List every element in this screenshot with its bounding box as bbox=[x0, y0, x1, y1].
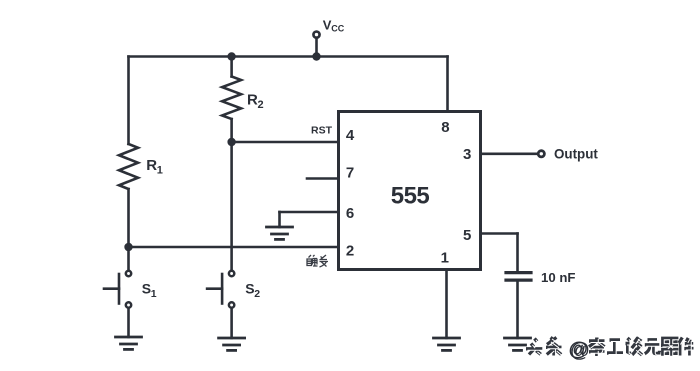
svg-text:10 nF: 10 nF bbox=[541, 270, 575, 285]
terminal Output bbox=[538, 151, 544, 157]
watermark char 工 bbox=[607, 340, 624, 354]
watermark char 条 bbox=[546, 338, 563, 357]
switch S1 bbox=[126, 271, 131, 276]
svg-text:5: 5 bbox=[463, 227, 471, 244]
pin 7 stub bbox=[307, 177, 339, 180]
watermark char 器 bbox=[661, 338, 679, 355]
wire RST node to pin 4 bbox=[232, 141, 339, 144]
svg-text:S: S bbox=[245, 281, 254, 297]
wire S2 to ground bbox=[230, 309, 233, 338]
svg-text:1: 1 bbox=[157, 165, 163, 177]
svg-text:7: 7 bbox=[346, 165, 354, 182]
wire pin 5 bbox=[481, 232, 518, 235]
resistor R2 bbox=[222, 77, 241, 120]
op-amp U1 555 IC body bbox=[339, 112, 481, 270]
wire trigger node to pin 2 bbox=[129, 246, 340, 249]
watermark char 件 bbox=[679, 338, 695, 357]
power terminal VCC bbox=[315, 39, 318, 57]
svg-text:@: @ bbox=[570, 340, 590, 362]
wire R2 top stub bbox=[230, 57, 233, 77]
wire pin 1 to ground bbox=[445, 270, 448, 339]
watermark char 元 bbox=[645, 340, 661, 355]
ground pin 1 bbox=[434, 337, 460, 340]
switch S2 bbox=[229, 271, 234, 276]
watermark char 谈 bbox=[626, 338, 644, 357]
junction R2 / RST node bbox=[227, 138, 235, 146]
watermark char 头 bbox=[526, 339, 544, 356]
wire capacitor to ground bbox=[516, 282, 519, 338]
junction VCC tap bbox=[312, 52, 320, 60]
svg-text:S: S bbox=[142, 281, 151, 297]
wire left rail down to R1 bbox=[127, 57, 130, 145]
junction R2 top bbox=[227, 52, 235, 60]
svg-text:CC: CC bbox=[331, 23, 344, 33]
svg-text:2: 2 bbox=[254, 288, 260, 300]
watermark char 李 bbox=[589, 338, 606, 358]
svg-text:R: R bbox=[247, 92, 258, 109]
svg-text:RST: RST bbox=[311, 125, 333, 137]
watermark 头条 @李工谈元器件 bbox=[526, 338, 695, 362]
wire S1 top stub bbox=[127, 247, 130, 270]
resistor R1 bbox=[119, 144, 138, 189]
wire S1 to ground bbox=[127, 309, 130, 337]
wire R2 bottom bbox=[230, 119, 233, 142]
ground S1 bbox=[116, 336, 142, 339]
svg-text:1: 1 bbox=[441, 250, 449, 267]
svg-text:Output: Output bbox=[554, 147, 598, 162]
ground S2 bbox=[219, 337, 245, 340]
svg-text:4: 4 bbox=[346, 127, 355, 144]
svg-text:2: 2 bbox=[346, 243, 354, 260]
watermark char @ bbox=[569, 339, 591, 362]
svg-text:8: 8 bbox=[441, 119, 449, 136]
wire top rail down to pin 8 bbox=[446, 57, 449, 114]
wire VCC top rail bbox=[129, 55, 448, 58]
svg-text:6: 6 bbox=[346, 205, 354, 222]
svg-text:3: 3 bbox=[463, 146, 471, 163]
svg-text:555: 555 bbox=[391, 183, 430, 210]
label trigger 触发 (pin 2) bbox=[307, 255, 328, 267]
svg-text:R: R bbox=[146, 157, 157, 174]
ground capacitor bbox=[505, 337, 531, 340]
wire pin 3 output bbox=[481, 153, 539, 156]
wire pin 6 to ground bbox=[280, 211, 339, 214]
junction trigger node bbox=[124, 243, 132, 251]
svg-text:1: 1 bbox=[151, 288, 157, 300]
wire RST node down to S2 bbox=[230, 142, 233, 270]
svg-text:2: 2 bbox=[258, 99, 264, 111]
ground pin 6 bbox=[267, 226, 293, 229]
capacitor C1 bbox=[506, 271, 531, 274]
wire R1 bottom bbox=[127, 189, 130, 247]
